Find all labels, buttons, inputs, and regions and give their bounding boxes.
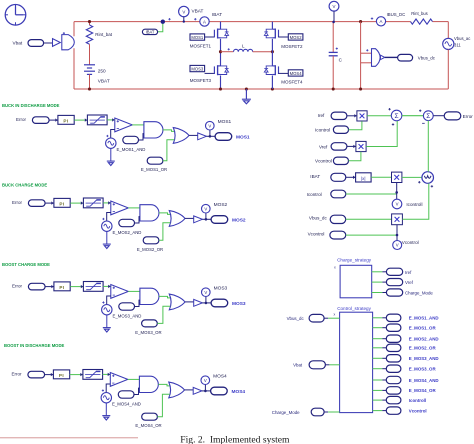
input flag E_MOS4_OR bbox=[135, 394, 169, 428]
limiter row 3 bbox=[83, 282, 103, 292]
clock symbol bbox=[5, 5, 26, 26]
summer S2 bbox=[419, 110, 433, 124]
transistor MOSFET2 bbox=[264, 22, 278, 52]
buffer gate row 4 bbox=[193, 387, 202, 394]
node capacitor bottom bbox=[332, 87, 335, 90]
wire OR to buffer bbox=[185, 217, 194, 219]
wire top rail left bbox=[74, 21, 200, 23]
svg-text:E_MOS4_AND: E_MOS4_AND bbox=[112, 401, 141, 406]
node battery top rail bbox=[88, 20, 91, 23]
svg-text:MOS3: MOS3 bbox=[232, 301, 246, 307]
svg-text:MOS4: MOS4 bbox=[290, 71, 303, 76]
svg-text:IBUS_DC: IBUS_DC bbox=[387, 12, 406, 17]
wire sine to ground bbox=[110, 148, 112, 161]
output flag Error bbox=[444, 112, 473, 120]
node junction Icontroll bbox=[395, 191, 398, 194]
svg-text:BOOST CHARGE MODE: BOOST CHARGE MODE bbox=[2, 262, 50, 267]
input flag E_MOS1_OR bbox=[141, 140, 174, 172]
wire X4 down to probe bbox=[396, 225, 398, 241]
voltage probe MOS1 bbox=[206, 119, 232, 136]
svg-text:VBAT: VBAT bbox=[98, 79, 110, 84]
sine carrier source row 4 bbox=[101, 389, 111, 403]
wire error to PI bbox=[45, 286, 54, 288]
svg-text:V: V bbox=[204, 290, 207, 295]
wire sine to ground bbox=[106, 231, 108, 244]
wire control output E_MOS3_OR bbox=[373, 368, 383, 370]
wire figure fragment bottom left bbox=[0, 437, 138, 439]
svg-text:V: V bbox=[396, 243, 399, 248]
svg-text:E_MOS4_OR: E_MOS4_OR bbox=[409, 388, 437, 393]
node gate signal row 2 bbox=[205, 218, 208, 221]
wire Vbus_dc to control block bbox=[324, 317, 328, 319]
AND gate row 3 bbox=[140, 288, 159, 304]
wire Iref to multiplier bbox=[347, 115, 357, 117]
svg-text:x: x bbox=[334, 312, 336, 316]
transistor MOSFET1 bbox=[214, 22, 228, 52]
svg-text:Vbus_ac: Vbus_ac bbox=[454, 36, 470, 41]
svg-text:V: V bbox=[208, 123, 211, 128]
wire charge output Vref bbox=[372, 281, 383, 283]
wire control output E_MOS3_AND bbox=[373, 357, 383, 359]
OR gate row 2 bbox=[169, 211, 185, 227]
svg-text:V: V bbox=[396, 202, 399, 207]
node Vcontrol output flag bbox=[386, 407, 426, 414]
voltage probe Icontroll bbox=[392, 199, 422, 209]
svg-text:IBAT: IBAT bbox=[310, 174, 320, 179]
node E_MOS2_OR output flag bbox=[386, 344, 436, 351]
voltage sensor Vbus_dc bbox=[361, 49, 436, 67]
svg-text:311: 311 bbox=[454, 42, 461, 47]
node E_MOS4_OR output flag bbox=[386, 387, 436, 394]
wire PI to limiter bbox=[70, 286, 83, 288]
resistor Rint_bus bbox=[411, 11, 433, 24]
buffer gate row 2 bbox=[194, 216, 203, 223]
node Vcontrol a bbox=[315, 157, 349, 164]
node Vbat control input bbox=[293, 361, 325, 369]
wire Vbat to control block bbox=[325, 364, 329, 366]
node right loop bottom bbox=[359, 87, 362, 90]
svg-text:MOS2: MOS2 bbox=[232, 217, 246, 223]
wire OR to buffer bbox=[185, 389, 194, 391]
svg-text:Icontroll: Icontroll bbox=[409, 398, 426, 403]
AND gate row 2 bbox=[140, 205, 159, 221]
PI controller row 1 bbox=[58, 115, 74, 124]
wire error to PI bbox=[49, 119, 58, 121]
svg-text:Charge_Mode: Charge_Mode bbox=[405, 291, 433, 296]
voltage probe MOS3 bbox=[202, 286, 228, 303]
node left leg bottom bbox=[219, 87, 222, 90]
wire X3 down to probe bbox=[396, 183, 398, 200]
wire bottom rail bbox=[74, 88, 448, 90]
node phase left bbox=[219, 50, 222, 53]
wire inductor to right leg bbox=[253, 51, 273, 53]
svg-text:|x|: |x| bbox=[361, 176, 366, 181]
svg-text:E_MOS3_AND: E_MOS3_AND bbox=[113, 313, 142, 318]
node Vref bbox=[386, 279, 413, 286]
svg-text:MOSFET4: MOSFET4 bbox=[281, 79, 303, 84]
wire X3 to nonlinear block bbox=[402, 176, 422, 178]
svg-text:Σ: Σ bbox=[426, 113, 430, 120]
output flag MOS3 bbox=[211, 299, 246, 307]
input flag E_MOS2_OR bbox=[137, 223, 170, 252]
abs block |x| bbox=[356, 173, 372, 182]
svg-text:Iref: Iref bbox=[405, 270, 412, 275]
wire Icontrol to probe junction bbox=[346, 193, 397, 195]
svg-text:E_MOS4_AND: E_MOS4_AND bbox=[409, 378, 439, 383]
wire PI to limiter bbox=[74, 119, 87, 121]
wire PI to limiter bbox=[70, 374, 83, 376]
node Vcontrol b bbox=[308, 231, 346, 239]
AC source Vbus_ac 311 bbox=[443, 22, 471, 89]
wire AND to OR bbox=[159, 213, 171, 215]
output flag MOS1 bbox=[215, 133, 250, 141]
wire nonlinear block to summer2 bbox=[427, 121, 429, 172]
buffer gate row 1 bbox=[198, 133, 207, 140]
svg-text:Error: Error bbox=[463, 114, 474, 119]
ground row 4 bbox=[102, 416, 110, 420]
voltage probe MOS2 bbox=[202, 202, 228, 219]
wire control output Icontroll bbox=[373, 399, 383, 401]
wire control output E_MOS4_AND bbox=[373, 379, 383, 381]
comparator op-amp row 3 bbox=[111, 285, 129, 299]
svg-text:MOSFET3: MOSFET3 bbox=[190, 78, 212, 83]
wire limiter to comparator bbox=[103, 202, 111, 204]
svg-text:Vcontrol: Vcontrol bbox=[402, 240, 419, 245]
ground power stage bbox=[242, 87, 251, 103]
wire sine to comparator minus input bbox=[106, 384, 110, 393]
wire X1 to summer1 bbox=[367, 115, 391, 117]
svg-text:MOS4: MOS4 bbox=[213, 374, 227, 380]
svg-text:IBAT: IBAT bbox=[212, 12, 222, 17]
svg-text:MOS3: MOS3 bbox=[214, 286, 228, 292]
svg-text:MOSFET1: MOSFET1 bbox=[190, 43, 212, 48]
wire Vref to X2 bbox=[347, 145, 356, 147]
node gate signal row 4 bbox=[204, 390, 207, 393]
voltage probe Vcontrol bbox=[393, 240, 419, 250]
gate label MOS3 bbox=[190, 65, 215, 83]
svg-text:E_MOS1_OR: E_MOS1_OR bbox=[141, 167, 167, 172]
current flag IBAT bbox=[142, 22, 162, 35]
node right loop top bbox=[359, 20, 362, 23]
wire buffer to output flag bbox=[206, 135, 215, 137]
node Icontrol a bbox=[315, 126, 349, 133]
svg-text:MOS2: MOS2 bbox=[214, 202, 228, 208]
wire control output Vcontrol bbox=[373, 410, 383, 412]
wire buffer to output flag bbox=[202, 302, 211, 304]
transistor MOSFET3 bbox=[214, 52, 228, 89]
svg-text:Vcontrol: Vcontrol bbox=[308, 231, 325, 236]
node Vref bbox=[319, 143, 347, 150]
battery VBAT 250 bbox=[84, 65, 110, 84]
wire battery to bottom rail bbox=[89, 74, 91, 89]
svg-text:Charge_Mode: Charge_Mode bbox=[272, 410, 300, 415]
svg-text:E_MOS3_OR: E_MOS3_OR bbox=[409, 367, 437, 372]
wire control output E_MOS2_OR bbox=[373, 347, 383, 349]
node E_MOS3_AND output flag bbox=[386, 355, 438, 362]
wire top rail right bbox=[386, 21, 411, 23]
comparator op-amp row 4 bbox=[110, 373, 128, 387]
svg-text:250: 250 bbox=[98, 69, 106, 74]
node Charge_Mode bbox=[386, 289, 433, 296]
svg-text:E_MOS1_OR: E_MOS1_OR bbox=[409, 326, 437, 331]
wire sine to ground bbox=[105, 403, 107, 416]
ammeter IBUS_DC bbox=[371, 12, 405, 26]
svg-text:Error: Error bbox=[12, 284, 23, 289]
controlled voltage source E_bat bbox=[62, 32, 75, 50]
wire Vcontrol to probe junction bbox=[346, 234, 397, 236]
node junction voltmeter tap bbox=[161, 20, 165, 24]
voltage probe MOS4 bbox=[201, 374, 227, 391]
wire IBAT to abs bbox=[346, 176, 356, 178]
svg-text:E_MOS1_AND: E_MOS1_AND bbox=[117, 147, 146, 152]
voltmeter VBAT bbox=[168, 6, 203, 23]
svg-text:Iref: Iref bbox=[318, 113, 325, 118]
svg-text:MOS4: MOS4 bbox=[232, 389, 246, 395]
OR gate row 3 bbox=[169, 294, 185, 310]
input flag E_MOS3_AND bbox=[113, 300, 142, 318]
svg-text:BOOST IN DISCHARGE MODE: BOOST IN DISCHARGE MODE bbox=[4, 343, 64, 348]
svg-text:E_MOS2_AND: E_MOS2_AND bbox=[409, 337, 439, 342]
node IBAT input bbox=[310, 173, 346, 181]
svg-text:Icontroll: Icontroll bbox=[406, 202, 422, 207]
ammeter IBAT bbox=[200, 12, 222, 26]
buffer gate row 3 bbox=[194, 299, 203, 306]
svg-text:Σ: Σ bbox=[395, 113, 399, 120]
wire comparator to AND bbox=[128, 378, 140, 380]
inductor L bbox=[228, 44, 253, 52]
input flag E_MOS4_AND bbox=[112, 388, 141, 406]
gate label MOS2 bbox=[278, 34, 303, 49]
svg-text:E_MOS2_AND: E_MOS2_AND bbox=[113, 230, 142, 235]
multiplier X3 bbox=[392, 172, 402, 182]
svg-text:Error: Error bbox=[12, 372, 23, 377]
wire OR to buffer bbox=[189, 134, 198, 136]
svg-text:PI: PI bbox=[59, 202, 64, 207]
gate label MOS1 bbox=[190, 34, 215, 49]
wire top rail mid bbox=[209, 21, 376, 23]
wire left branch vertical bbox=[73, 22, 75, 37]
wire control output E_MOS2_AND bbox=[373, 338, 383, 340]
svg-text:Vref: Vref bbox=[405, 280, 414, 285]
svg-text:Icontrol: Icontrol bbox=[307, 192, 322, 197]
ground row 1 bbox=[107, 161, 115, 165]
wire right loop vertical bbox=[360, 22, 362, 89]
wire AND to OR bbox=[159, 296, 171, 298]
svg-text:Vbat: Vbat bbox=[293, 363, 303, 368]
svg-text:Vcontrol: Vcontrol bbox=[315, 159, 332, 164]
node gate signal row 3 bbox=[205, 302, 208, 305]
node Iref bbox=[386, 268, 412, 275]
node Charge_Mode control input bbox=[272, 408, 324, 416]
wire summer2 to error flag bbox=[433, 115, 444, 117]
node E_MOS1_AND output flag bbox=[386, 314, 438, 321]
wire comparator to AND bbox=[128, 207, 140, 209]
buffer triangle into controlled source bbox=[53, 39, 61, 47]
svg-text:L: L bbox=[242, 44, 245, 49]
node Icontroll output flag bbox=[386, 396, 426, 403]
svg-text:MOS1: MOS1 bbox=[191, 35, 204, 40]
svg-text:MOS3: MOS3 bbox=[191, 66, 204, 71]
block Charge_strategy bbox=[334, 258, 372, 298]
wire control output E_MOS1_AND bbox=[373, 317, 383, 319]
gate label MOS4 bbox=[278, 70, 303, 85]
capacitor C bbox=[329, 22, 343, 89]
block Control_strategy bbox=[334, 306, 373, 413]
svg-text:E_MOS2_OR: E_MOS2_OR bbox=[409, 346, 437, 351]
svg-text:E_MOS1_AND: E_MOS1_AND bbox=[409, 316, 439, 321]
wire Charge_Mode to control block bbox=[324, 411, 328, 413]
svg-text:PI: PI bbox=[63, 119, 68, 124]
node error input row 1 bbox=[16, 117, 49, 124]
wire comparator to AND bbox=[132, 124, 144, 126]
wire error to PI bbox=[45, 202, 54, 204]
svg-text:E_MOS4_OR: E_MOS4_OR bbox=[135, 423, 161, 428]
svg-text:Rint_bat: Rint_bat bbox=[95, 32, 113, 37]
svg-text:Vbus_dc: Vbus_dc bbox=[418, 56, 436, 61]
wire control output E_MOS4_OR bbox=[373, 389, 383, 391]
input flag E_MOS2_AND bbox=[113, 217, 142, 235]
wire Vcontrol to X2 bbox=[349, 152, 361, 161]
svg-text:A: A bbox=[203, 19, 206, 24]
node gate signal row 1 bbox=[209, 135, 212, 138]
wire abs to X3 bbox=[371, 176, 391, 178]
AND gate row 4 bbox=[139, 376, 158, 392]
sine carrier source row 3 bbox=[102, 301, 112, 315]
svg-text:Rint_bus: Rint_bus bbox=[411, 11, 428, 16]
node junction Vcontrol bbox=[396, 234, 399, 237]
svg-text:VBAT: VBAT bbox=[192, 9, 204, 14]
sine carrier source row 1 bbox=[106, 135, 116, 149]
svg-text:E_MOS3_OR: E_MOS3_OR bbox=[135, 330, 161, 335]
svg-text:Vcontrol: Vcontrol bbox=[409, 408, 427, 413]
wire limiter to comparator bbox=[103, 373, 111, 375]
node E_MOS3_OR output flag bbox=[386, 365, 436, 372]
svg-text:Error: Error bbox=[16, 117, 27, 122]
comparator op-amp row 1 bbox=[115, 118, 133, 132]
AND gate row 1 bbox=[144, 122, 163, 138]
wire Icontrol to X1 bbox=[349, 121, 362, 130]
voltmeter bus bbox=[329, 1, 339, 23]
OR gate row 4 bbox=[169, 382, 185, 398]
node right leg bottom bbox=[271, 87, 274, 90]
wire sine to comparator minus input bbox=[107, 296, 111, 305]
svg-text:PI: PI bbox=[59, 285, 64, 290]
node error input row 4 bbox=[12, 371, 45, 378]
svg-text:MOSFET2: MOSFET2 bbox=[281, 44, 303, 49]
node phase right bbox=[271, 50, 274, 53]
node E_MOS1_OR output flag bbox=[386, 324, 436, 331]
ground row 2 bbox=[103, 244, 111, 248]
svg-text:IBAT: IBAT bbox=[146, 30, 155, 35]
svg-text:MOS1: MOS1 bbox=[236, 134, 250, 140]
limiter row 4 bbox=[83, 370, 103, 380]
transistor MOSFET4 bbox=[264, 52, 278, 89]
svg-text:MOS1: MOS1 bbox=[218, 119, 232, 125]
wire buffer to output flag bbox=[202, 390, 211, 392]
wire X4 to nonlinear block bbox=[402, 183, 428, 219]
wire limiter to comparator bbox=[107, 119, 115, 121]
svg-text:Control_strategy: Control_strategy bbox=[337, 306, 371, 311]
ground row 3 bbox=[103, 328, 111, 332]
wire charge output Iref bbox=[372, 271, 383, 273]
svg-text:PI: PI bbox=[59, 373, 64, 378]
limiter row 2 bbox=[83, 198, 103, 208]
wire AND to OR bbox=[163, 130, 175, 132]
wire OR to buffer bbox=[185, 301, 194, 303]
svg-text:Charge_strategy: Charge_strategy bbox=[337, 258, 372, 263]
svg-text:x: x bbox=[334, 265, 336, 269]
svg-text:V: V bbox=[182, 9, 185, 14]
OR gate row 1 bbox=[173, 128, 189, 144]
node Iref bbox=[318, 112, 347, 119]
input flag E_MOS1_AND bbox=[117, 134, 146, 152]
node Vbus_dc control input bbox=[287, 314, 325, 322]
svg-text:Vbat: Vbat bbox=[13, 41, 23, 46]
wire charge output Charge_Mode bbox=[372, 292, 383, 294]
wire sine to ground bbox=[106, 315, 108, 328]
output flag MOS4 bbox=[211, 387, 246, 395]
svg-text:V: V bbox=[204, 206, 207, 211]
wire PI to limiter bbox=[70, 202, 83, 204]
svg-text:Vbus_dc: Vbus_dc bbox=[309, 215, 328, 220]
svg-text:V: V bbox=[204, 378, 207, 383]
nonlinear round block bbox=[418, 172, 433, 188]
wire buffer to output flag bbox=[202, 218, 211, 220]
wire resistor to battery bbox=[89, 44, 91, 64]
limiter row 1 bbox=[87, 115, 107, 125]
PI controller row 2 bbox=[54, 198, 70, 207]
wire AND to OR bbox=[158, 384, 170, 386]
node E_MOS4_AND output flag bbox=[386, 376, 438, 383]
svg-text:Vref: Vref bbox=[319, 145, 328, 150]
wire error to PI bbox=[45, 374, 54, 376]
svg-text:A: A bbox=[380, 19, 383, 24]
svg-text:Error: Error bbox=[12, 200, 23, 205]
node Vbus_dc input bbox=[309, 215, 346, 223]
node Icontrol b bbox=[307, 190, 346, 198]
svg-text:BUCK IN DISCHARGE MODE: BUCK IN DISCHARGE MODE bbox=[2, 103, 60, 108]
node error input row 2 bbox=[12, 200, 45, 207]
multiplier X1 bbox=[357, 111, 367, 121]
svg-text:Vbus_dc: Vbus_dc bbox=[287, 316, 305, 321]
svg-text:BUCK CHARGE MODE: BUCK CHARGE MODE bbox=[2, 182, 47, 187]
wire limiter to comparator bbox=[103, 285, 111, 287]
node error input row 3 bbox=[12, 283, 45, 290]
multiplier X2 bbox=[356, 141, 366, 151]
wire control output E_MOS1_OR bbox=[373, 327, 383, 329]
multiplier X4 bbox=[392, 214, 403, 225]
wire summer1 to summer2 bbox=[402, 115, 423, 117]
source label Vbat bbox=[13, 40, 53, 47]
sine carrier source row 2 bbox=[102, 218, 112, 232]
wire sine to comparator minus input bbox=[107, 213, 111, 222]
PI controller row 4 bbox=[53, 370, 69, 379]
output flag MOS2 bbox=[211, 216, 246, 224]
summer S1 bbox=[388, 108, 402, 126]
wire sine to comparator minus input bbox=[111, 130, 115, 139]
svg-text:MOS2: MOS2 bbox=[290, 35, 303, 40]
svg-text:V: V bbox=[333, 4, 336, 9]
wire node to inductor bbox=[221, 51, 234, 53]
wire comparator to AND bbox=[128, 290, 140, 292]
svg-text:Icontrol: Icontrol bbox=[315, 128, 330, 133]
input flag E_MOS3_OR bbox=[135, 306, 170, 335]
wire Vbus_dc to X4 bbox=[346, 218, 392, 220]
PI controller row 3 bbox=[54, 282, 70, 291]
svg-text:E_MOS2_OR: E_MOS2_OR bbox=[137, 247, 163, 252]
svg-text:E_MOS3_AND: E_MOS3_AND bbox=[409, 356, 439, 361]
node E_MOS2_AND output flag bbox=[386, 335, 438, 342]
